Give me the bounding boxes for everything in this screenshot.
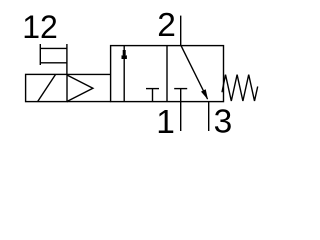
blocked port T (left position, port 3) stem	[152, 89, 154, 102]
pilot connection block 12 (bottom bar)	[40, 62, 67, 64]
pilot triangle (pneumatic pilot symbol)	[67, 75, 93, 101]
flow path 1->2 (left position, vertical line)	[123, 46, 125, 102]
wire: pilot port 12 stub (left vertical)	[39, 44, 41, 65]
solenoid Y1 (coil box)	[26, 74, 67, 101]
blocked port T (left position, port 3) bar	[146, 88, 159, 90]
arrowhead of flow path 2->3	[201, 89, 208, 100]
pilot head box (bottom edge)	[67, 101, 111, 103]
flow path 2->3 (right position, diagonal line)	[181, 46, 208, 99]
arrowhead of flow path 1->2	[123, 50, 126, 55]
valve body (3/2 valve outline)	[111, 46, 224, 102]
pilot head box (top edge)	[67, 73, 111, 75]
wire: port 1 stub	[180, 102, 182, 131]
blocked port T (right position, port 1) stem	[180, 89, 182, 102]
wire: pilot line from block 12 to pilot head	[66, 44, 68, 74]
pilot connection block 12 (top bar)	[40, 47, 67, 49]
svg-text:3: 3	[214, 104, 233, 141]
wire: port 2 stub	[180, 16, 182, 46]
svg-text:1: 1	[156, 104, 175, 141]
blocked port T (right position, port 1) bar	[174, 88, 187, 90]
svg-text:12: 12	[22, 9, 58, 45]
valve position divider	[166, 46, 168, 102]
svg-text:2: 2	[157, 7, 176, 44]
return spring	[222, 75, 258, 101]
solenoid Y1 (coil diagonal)	[38, 74, 56, 101]
wire: port 3 stub	[208, 102, 210, 131]
